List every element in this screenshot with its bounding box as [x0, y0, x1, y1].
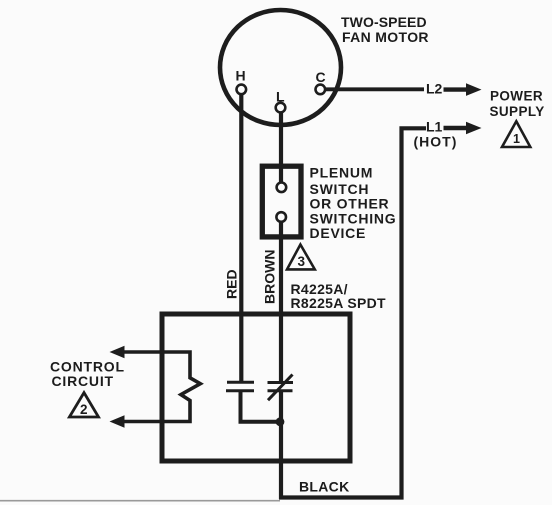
svg-text:PLENUM: PLENUM: [310, 165, 374, 181]
svg-text:(HOT): (HOT): [414, 133, 458, 149]
svg-text:OR OTHER: OR OTHER: [310, 195, 390, 211]
svg-text:1: 1: [513, 132, 520, 146]
svg-text:L2: L2: [426, 81, 443, 97]
svg-text:BLACK: BLACK: [299, 479, 350, 495]
svg-text:TWO-SPEED: TWO-SPEED: [341, 14, 427, 30]
svg-text:SUPPLY: SUPPLY: [490, 104, 545, 119]
svg-text:CIRCUIT: CIRCUIT: [52, 373, 114, 389]
svg-text:POWER: POWER: [490, 89, 543, 104]
svg-text:H: H: [236, 68, 246, 84]
svg-text:2: 2: [80, 402, 88, 417]
svg-text:FAN MOTOR: FAN MOTOR: [342, 29, 429, 45]
svg-text:BROWN: BROWN: [262, 250, 278, 304]
svg-text:L1: L1: [426, 119, 443, 135]
svg-text:RED: RED: [224, 269, 240, 299]
svg-text:R8225A SPDT: R8225A SPDT: [291, 295, 387, 311]
svg-text:L: L: [276, 89, 285, 105]
svg-text:3: 3: [298, 254, 306, 269]
svg-text:DEVICE: DEVICE: [310, 225, 367, 241]
svg-text:C: C: [316, 69, 326, 85]
